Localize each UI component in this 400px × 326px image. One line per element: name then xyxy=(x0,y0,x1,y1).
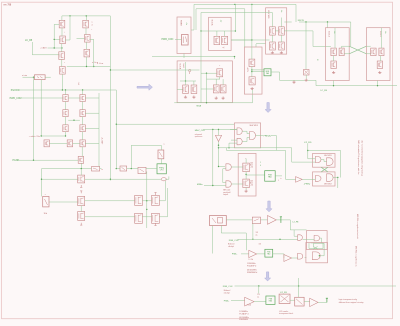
svg-text:+5v: +5v xyxy=(220,20,222,23)
svg-text:▵: ▵ xyxy=(280,177,281,180)
svg-text:MXA+: MXA+ xyxy=(197,183,204,186)
svg-text:clkchip/: clkchip/ xyxy=(228,246,234,248)
svg-text:a: a xyxy=(92,22,93,24)
svg-text:+5v: +5v xyxy=(384,31,386,34)
svg-text:+: + xyxy=(64,62,65,64)
svg-text:MHZ_CLK: MHZ_CLK xyxy=(195,130,206,132)
svg-text:(for incremental propagation d: (for incremental propagation delay testi… xyxy=(360,141,363,177)
svg-text:MXA: MXA xyxy=(197,105,202,108)
svg-text:+5v: +5v xyxy=(280,10,282,13)
svg-text:0: 0 xyxy=(260,165,261,167)
svg-text:+5v: +5v xyxy=(185,23,187,26)
svg-text:d: d xyxy=(92,25,93,27)
svg-text:logic transparent only,: logic transparent only, xyxy=(339,298,358,301)
svg-text:46/100MHz: 46/100MHz xyxy=(247,269,257,271)
svg-text:MUX.A: MUX.A xyxy=(211,20,214,26)
svg-text:L2_FB: L2_FB xyxy=(293,221,300,223)
svg-text:MUX VDD: MUX VDD xyxy=(267,10,269,19)
svg-text:+5d: +5d xyxy=(250,185,253,187)
svg-text:FSB+: FSB+ xyxy=(224,301,230,303)
svg-text:1/3: 1/3 xyxy=(259,243,262,245)
svg-text:+: + xyxy=(64,32,65,34)
svg-text:PWR_COM: PWR_COM xyxy=(10,98,22,100)
svg-text:7+/2d: 7+/2d xyxy=(248,259,253,261)
svg-text:MID selectable PLL synthesizer: MID selectable PLL synthesizer, with the xyxy=(357,141,360,175)
svg-text:PWR_CON: PWR_CON xyxy=(162,39,174,41)
svg-text:7+/2d: 7+/2d xyxy=(247,305,252,307)
svg-text:transparent latch: transparent latch xyxy=(279,312,293,315)
svg-text:d+: d+ xyxy=(257,297,259,299)
svg-text:PAD: PAD xyxy=(268,175,272,178)
svg-text:1: 1 xyxy=(260,162,261,164)
svg-text:A.Y.M: A.Y.M xyxy=(246,68,249,73)
svg-text:PWRIN: PWRIN xyxy=(180,20,182,27)
svg-text:+5d: +5d xyxy=(77,82,79,85)
svg-text:LC_FB: LC_FB xyxy=(321,90,328,92)
svg-text:▸: ▸ xyxy=(102,168,103,171)
svg-text:clkchip/: clkchip/ xyxy=(224,293,230,295)
svg-text:+5d: +5d xyxy=(250,167,253,169)
svg-text:L/2_FB: L/2_FB xyxy=(280,292,287,294)
svg-text:+FREQ: +FREQ xyxy=(304,183,311,185)
svg-text:+: + xyxy=(91,29,92,31)
svg-text:PGND: PGND xyxy=(13,160,20,162)
svg-text:+5 ATX: +5 ATX xyxy=(40,47,47,50)
svg-text:FSB/MEM: FSB/MEM xyxy=(239,319,248,321)
svg-text:PCI/AGP d: PCI/AGP d xyxy=(247,265,256,268)
svg-text:a trim: a trim xyxy=(22,74,27,77)
svg-text:MID PLL re-synthesis test ckt: MID PLL re-synthesis test ckt xyxy=(356,214,359,239)
svg-text:MHZ MUX: MHZ MUX xyxy=(250,125,259,127)
svg-text:d+: d+ xyxy=(256,235,258,237)
svg-text:1u3d: 1u3d xyxy=(182,64,184,68)
svg-text:MID PLL re-synthesis ck: MID PLL re-synthesis ck xyxy=(355,246,358,266)
svg-text:FSB_CLK: FSB_CLK xyxy=(223,286,233,288)
svg-text:rev 788: rev 788 xyxy=(4,3,12,6)
svg-text:a +5s ▸: a +5s ▸ xyxy=(97,62,103,65)
svg-text:FSB: FSB xyxy=(267,252,270,254)
svg-text:different than original circui: different than original circuitry xyxy=(339,301,364,304)
svg-text:MXCW: MXCW xyxy=(298,20,304,22)
svg-text:MHZ MUX: MHZ MUX xyxy=(324,155,332,157)
svg-text:MUX.B: MUX.B xyxy=(179,64,181,70)
svg-text:FSB_CLK: FSB_CLK xyxy=(229,240,239,242)
svg-text:FSB/MEM d: FSB/MEM d xyxy=(247,272,257,274)
svg-text:PCI/AGP d: PCI/AGP d xyxy=(239,312,248,315)
svg-text:a: a xyxy=(164,144,165,146)
svg-text:FSB+: FSB+ xyxy=(232,254,238,256)
svg-text:FREQU: FREQU xyxy=(264,136,272,138)
svg-text:MUXI.B: MUXI.B xyxy=(379,31,381,38)
svg-text:+5_SBY: +5_SBY xyxy=(101,137,103,145)
svg-text:MXB: MXB xyxy=(266,71,269,73)
svg-text:1Kd: 1Kd xyxy=(44,213,48,215)
svg-text:output: output xyxy=(223,193,228,196)
svg-text:+ what +5Vs: + what +5Vs xyxy=(29,135,40,138)
svg-text:MHZ MUX: MHZ MUX xyxy=(324,184,332,186)
svg-text:PGOOD: PGOOD xyxy=(11,90,20,92)
svg-text:spectrum: spectrum xyxy=(195,135,203,138)
svg-text:MUXI.A: MUXI.A xyxy=(328,31,331,38)
svg-text:LC_FB: LC_FB xyxy=(25,40,33,42)
